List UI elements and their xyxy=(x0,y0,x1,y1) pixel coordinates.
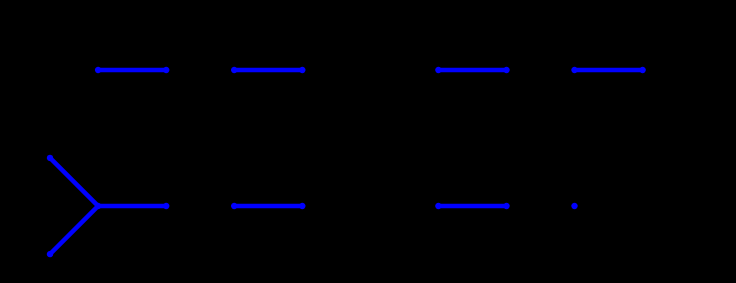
wire edge row1 (5,6) xyxy=(438,68,506,73)
node row2 k6 xyxy=(503,203,509,209)
wire fork upper diagonal xyxy=(50,158,98,206)
node row1 k7 xyxy=(571,67,577,73)
wire edge row2 (0,1) xyxy=(98,204,166,209)
node row1 k0 xyxy=(95,67,101,73)
wire edge row1 (7,8) xyxy=(575,68,643,73)
node row2 k7 isolated xyxy=(571,203,577,209)
node row2 k2 xyxy=(231,203,237,209)
node row1 k1 xyxy=(163,67,169,73)
node row2 k3 xyxy=(299,203,305,209)
node row1 k2 xyxy=(231,67,237,73)
wire edge row2 (5,6) xyxy=(438,204,506,209)
node row1 k5 xyxy=(435,67,441,73)
node row2 k5 xyxy=(435,203,441,209)
node row1 k8 xyxy=(639,67,645,73)
wire edge row2 (2,3) xyxy=(234,204,302,209)
wire fork lower diagonal xyxy=(50,206,98,254)
node fork junction xyxy=(95,203,101,209)
wire edge row1 (2,3) xyxy=(234,68,302,73)
node row1 k3 xyxy=(299,67,305,73)
node fork lower xyxy=(47,251,53,257)
node row2 k1 xyxy=(163,203,169,209)
wire edge row1 (0,1) xyxy=(98,68,166,73)
node fork upper xyxy=(47,155,53,161)
node row1 k6 xyxy=(503,67,509,73)
